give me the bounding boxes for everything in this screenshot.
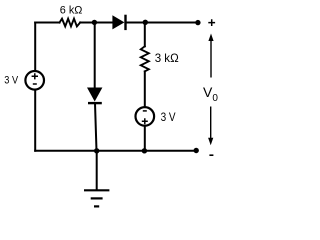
diode D1 (series, pointing right): [112, 15, 125, 30]
svg-text:3 V: 3 V: [161, 110, 176, 124]
wire diode D2 to bottom wire: [95, 103, 97, 151]
label + (top right terminal): [208, 19, 215, 26]
node bottom-right terminal: [194, 148, 199, 153]
label - (bottom right terminal): [209, 154, 213, 156]
wire node2 down to resistor R2: [144, 23, 146, 47]
arrow down (Vo negative direction): [208, 107, 213, 146]
wire left vertical: [34, 23, 36, 151]
svg-text:3 kΩ: 3 kΩ: [155, 51, 179, 65]
voltage source V1 (left 3V): [25, 71, 44, 90]
resistor R1 6k zigzag: [60, 19, 81, 27]
svg-text:6 kΩ: 6 kΩ: [60, 5, 83, 17]
node bottom ground junction: [94, 148, 99, 153]
wire source V2 to bottom wire: [144, 126, 146, 151]
node bottom below V2: [142, 148, 147, 153]
resistor R2 3k zigzag: [141, 46, 149, 71]
node on top wire above D2: [92, 20, 97, 25]
svg-text:3 V: 3 V: [4, 74, 18, 86]
wire top-left horizontal to resistor: [35, 22, 59, 24]
wire resistor R2 to source V2: [144, 71, 146, 107]
node top-right terminal: [195, 20, 200, 25]
wire node1 down to diode D2: [94, 23, 96, 89]
arrow up (Vo positive direction): [208, 34, 213, 78]
wire resistor to diode D1: [80, 22, 113, 24]
voltage source V2 (bottom right 3V): [136, 107, 155, 126]
node on top wire above R2: [143, 20, 148, 25]
diode D2 (shunt, pointing down): [87, 88, 102, 104]
ground bars: [84, 190, 109, 206]
ground stem: [96, 151, 98, 190]
wire diode D1 to top-right node: [126, 22, 198, 24]
wire bottom horizontal: [35, 150, 196, 152]
